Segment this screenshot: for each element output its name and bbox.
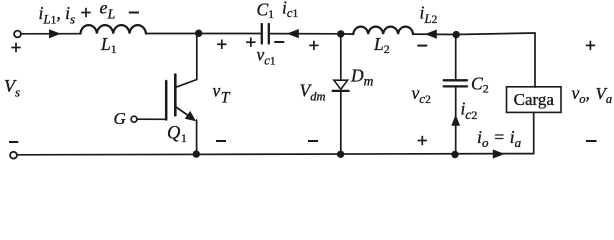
arrow current i_c2 [451,115,460,126]
capacitor C2 plates [444,80,467,86]
plus e_L left [81,8,90,17]
plus v_o top [586,41,595,50]
plus v_c2 bottom [418,136,427,145]
minus e_L right [129,12,139,14]
terminal input top (+) [14,31,21,38]
load box Carga [507,87,562,113]
capacitor C2 branch wire upper [455,35,457,80]
wire L2 to node C [413,33,456,35]
node A junction transistor/top rail [195,30,202,37]
plus v_c1 left [246,38,255,47]
node D junction emitter/bottom rail [193,150,200,157]
gate terminal G [131,116,137,122]
minus v_c2 top [417,45,427,47]
wire load to bottom rail [533,112,535,153]
svg-text:Carga: Carga [514,90,555,109]
minus Vs bottom [9,141,18,143]
diode Dm cathode bar [333,90,349,92]
capacitor C1 [262,24,269,44]
wire L1 to C1 [146,33,261,35]
capacitor C2 branch wire lower [455,88,457,155]
wire node B to L2 [341,33,353,35]
wire top-left from terminal to L1 [21,33,80,35]
minus v_c1 right [274,41,284,43]
minus v_T bottom [216,140,226,142]
transistor Q1 emitter with arrow [175,107,191,118]
diode Dm branch wire upper [340,34,342,80]
plus V_dm top [309,41,318,50]
arrow current i_L1 i_s [49,29,61,38]
arrow current i_L2 [425,30,437,39]
wire right branch down to load [534,33,536,87]
wire node C to top-right corner [456,33,535,35]
transistor Q1 gate bar [165,81,168,120]
transistor Q1 collector wire [196,33,198,79]
diode Dm triangle [334,80,348,89]
inductor L2 [353,27,413,34]
arrow current i_c1 [287,29,299,38]
node B junction diode/L2 [337,30,344,37]
wire C1 to node B [270,33,341,35]
plus Vs top [11,43,20,52]
plus v_T top [217,40,226,49]
transistor Q1 body bar [174,75,177,116]
bottom rail wire [17,154,534,155]
node C junction C2/top rail [453,31,460,38]
node E junction diode/bottom rail [337,151,344,158]
minus V_dm bottom [308,140,318,142]
polarity marks drawn as strokes [9,8,597,145]
minus v_o bottom [586,140,597,142]
terminal input bottom (-) [10,152,17,159]
svg-text:G: G [114,109,126,128]
diode Dm branch wire lower [340,91,342,154]
arrow current i_o [493,149,505,158]
wire gate [137,118,166,120]
inductor L1 [81,25,146,33]
node F junction C2/bottom rail [451,151,458,158]
